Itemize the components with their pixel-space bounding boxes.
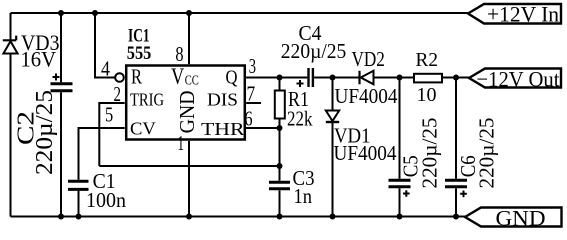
svg-text:1n: 1n bbox=[294, 184, 313, 208]
node dot pin3/R1 bbox=[277, 75, 283, 81]
node dot top rail at pin8 bbox=[186, 10, 192, 16]
svg-text:220µ/25: 220µ/25 bbox=[475, 118, 499, 189]
svg-text:GND: GND bbox=[175, 90, 199, 133]
diode VD2 bbox=[335, 47, 398, 108]
svg-text:UF4004: UF4004 bbox=[334, 141, 397, 165]
wire C4 to node A bbox=[314, 77, 358, 79]
svg-text:+12V In: +12V In bbox=[487, 2, 559, 27]
wire top +12V rail bbox=[11, 12, 469, 14]
resistor R1 bbox=[275, 87, 313, 130]
svg-text:22k: 22k bbox=[287, 106, 313, 130]
capacitor C2 bbox=[14, 13, 73, 217]
svg-text:DIS: DIS bbox=[207, 90, 238, 110]
capacitor C4 bbox=[281, 21, 347, 87]
svg-text:−12V Out: −12V Out bbox=[477, 66, 560, 91]
node dot bottom pin1 bbox=[186, 214, 192, 220]
wire node A branch bbox=[332, 78, 334, 217]
wire R1 branch bbox=[279, 78, 281, 181]
wire bottom GND rail bbox=[11, 216, 466, 218]
svg-text:GND: GND bbox=[496, 205, 546, 230]
node dot bottom C3 bbox=[277, 214, 283, 220]
wire pin 5 CV net bbox=[79, 128, 125, 180]
wire pin 6 THR net bbox=[246, 127, 279, 129]
capacitor C6 bbox=[445, 78, 499, 217]
node dot top rail at pin4 bbox=[92, 10, 98, 16]
wire pin 3 output net bbox=[246, 77, 307, 79]
wire pin 1 bbox=[188, 141, 190, 217]
svg-text:16V: 16V bbox=[21, 47, 57, 72]
wire pin 8 bbox=[188, 13, 190, 64]
node dot node A bbox=[330, 75, 336, 81]
capacitor C1 bbox=[68, 169, 126, 217]
capacitor C5 bbox=[389, 78, 442, 217]
svg-text:220µ/25: 220µ/25 bbox=[32, 90, 58, 175]
node dot bottom C2 bbox=[58, 214, 64, 220]
capacitor C3 bbox=[269, 166, 315, 217]
wire pin 2 TRIG net bbox=[99, 103, 124, 166]
node dot bottom C1 bbox=[76, 214, 82, 220]
svg-text:R: R bbox=[131, 65, 142, 89]
resistor R2 bbox=[414, 49, 442, 106]
svg-text:VD2: VD2 bbox=[352, 47, 385, 71]
diode VD1 bbox=[326, 111, 397, 166]
wire pin4 reset net bbox=[95, 13, 115, 78]
svg-text:THR: THR bbox=[201, 119, 245, 139]
svg-text:TRIG: TRIG bbox=[130, 90, 164, 110]
svg-text:8: 8 bbox=[175, 42, 183, 66]
svg-text:5: 5 bbox=[105, 103, 113, 127]
node dot bottom VD1 bbox=[330, 214, 336, 220]
node dot C5 top bbox=[397, 75, 403, 81]
svg-text:1: 1 bbox=[178, 131, 185, 155]
svg-text:R2: R2 bbox=[416, 49, 439, 71]
svg-text:3: 3 bbox=[249, 54, 256, 78]
node dot top rail at C2 bbox=[58, 10, 64, 16]
connector GND bbox=[465, 205, 562, 230]
node dot TRIG/THR/C3 bbox=[277, 163, 283, 169]
connector -12V Out bbox=[469, 66, 561, 91]
zener diode VD3 bbox=[3, 30, 60, 72]
svg-text:6: 6 bbox=[244, 106, 252, 130]
svg-text:CV: CV bbox=[130, 119, 156, 139]
node dot pin6/R1 bbox=[277, 125, 283, 131]
wire VD2 to R2 bbox=[374, 77, 414, 79]
connector +12V In bbox=[468, 2, 561, 27]
node dot bottom C5 bbox=[397, 214, 403, 220]
svg-text:4: 4 bbox=[101, 57, 110, 81]
svg-text:V: V bbox=[171, 64, 184, 89]
node dot C6 top bbox=[453, 75, 459, 81]
wire TRIG-THR link bbox=[99, 165, 279, 167]
svg-text:10: 10 bbox=[417, 84, 437, 106]
wire pin 7 stub bbox=[246, 102, 261, 104]
node dot bottom C6 bbox=[453, 214, 459, 220]
svg-text:CC: CC bbox=[185, 73, 199, 88]
svg-text:220µ/25: 220µ/25 bbox=[417, 118, 441, 189]
svg-text:555: 555 bbox=[127, 43, 152, 64]
wire left rail bbox=[10, 13, 12, 217]
svg-text:Q: Q bbox=[226, 66, 238, 88]
svg-text:100n: 100n bbox=[86, 188, 126, 212]
op-amp IC1 555 timer box bbox=[115, 26, 245, 140]
svg-text:220µ/25: 220µ/25 bbox=[281, 39, 347, 63]
svg-text:UF4004: UF4004 bbox=[335, 84, 398, 108]
wire R2 to out connector bbox=[442, 77, 469, 79]
